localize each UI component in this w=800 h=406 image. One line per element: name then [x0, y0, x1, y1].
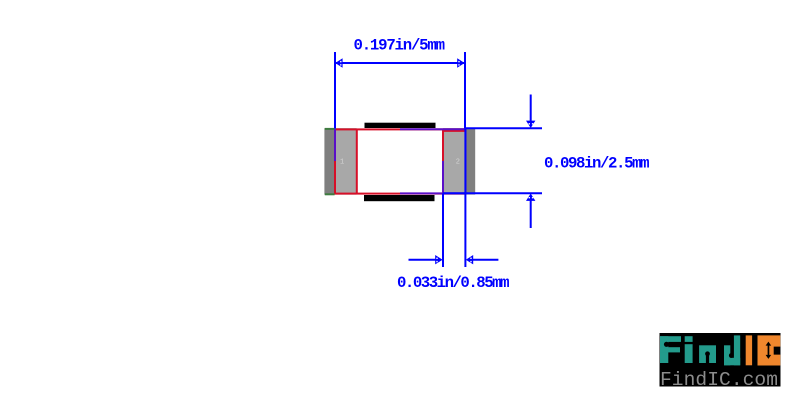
terminal 2 overlap (light gray): [443, 129, 466, 194]
body outline red rectangle: [335, 129, 466, 193]
dimension width: line: [335, 62, 465, 64]
dimension pad: extension line right: [464, 128, 466, 267]
body top edge (black bar): [365, 123, 436, 128]
dimension height: upper arrowhead: [526, 121, 535, 128]
logo letter C: [758, 335, 781, 365]
dimension pad: extension line left: [442, 193, 444, 267]
terminal 1 overlap (light gray): [335, 129, 357, 194]
logo letter n: [699, 345, 716, 363]
svg-text:0.098in/2.5mm: 0.098in/2.5mm: [544, 155, 650, 173]
logo letter d circuit dot: [729, 353, 734, 358]
svg-text:1: 1: [340, 159, 344, 167]
dimension height: extension line bottom: [443, 192, 542, 194]
logo letter d circuit trace: [732, 337, 733, 355]
dimension pad: left arrowhead: [435, 255, 442, 264]
logo letter n circuit dot: [705, 351, 710, 356]
body bottom edge (black bar): [364, 195, 435, 201]
dimension height: lower leader: [530, 199, 532, 228]
body outline purple overlay: [335, 128, 466, 194]
logo letter n circuit trace: [706, 354, 709, 363]
dimension pad: left leader: [409, 259, 437, 261]
logo letter I: [746, 335, 752, 365]
logo letter d: [724, 335, 740, 365]
pad 1 bottom edge (green): [325, 193, 335, 195]
logo background box: [660, 333, 781, 387]
logo letter i: [685, 336, 693, 363]
pad 1 (left land, dark gray): [324, 128, 356, 194]
pad 2 (right land, dark gray): [443, 128, 475, 194]
logo letter F circuit trace: [667, 344, 681, 345]
dimension height: upper leader: [530, 95, 532, 123]
logo letter C circuit arrow trace: [766, 342, 772, 359]
dimension width: extension line left: [334, 52, 336, 128]
dimension height: lower arrowhead: [526, 194, 535, 201]
svg-text:FindIC.com: FindIC.com: [660, 369, 778, 391]
pad 1 top edge (green): [325, 128, 335, 130]
dimension pad: right arrowhead: [466, 255, 473, 264]
logo letter F: [660, 336, 681, 363]
logo letter F circuit dot: [664, 342, 669, 347]
dimension width: right arrowhead: [457, 58, 464, 67]
dimension height: extension line top: [466, 127, 542, 129]
dimension width: extension line right (continues below part): [464, 52, 466, 128]
dimension pad: right leader: [473, 259, 499, 261]
svg-text:0.033in/0.85mm: 0.033in/0.85mm: [397, 274, 510, 292]
dimension width: left arrowhead: [335, 58, 342, 67]
svg-text:2: 2: [456, 159, 460, 167]
svg-text:0.197in/5mm: 0.197in/5mm: [354, 37, 446, 55]
